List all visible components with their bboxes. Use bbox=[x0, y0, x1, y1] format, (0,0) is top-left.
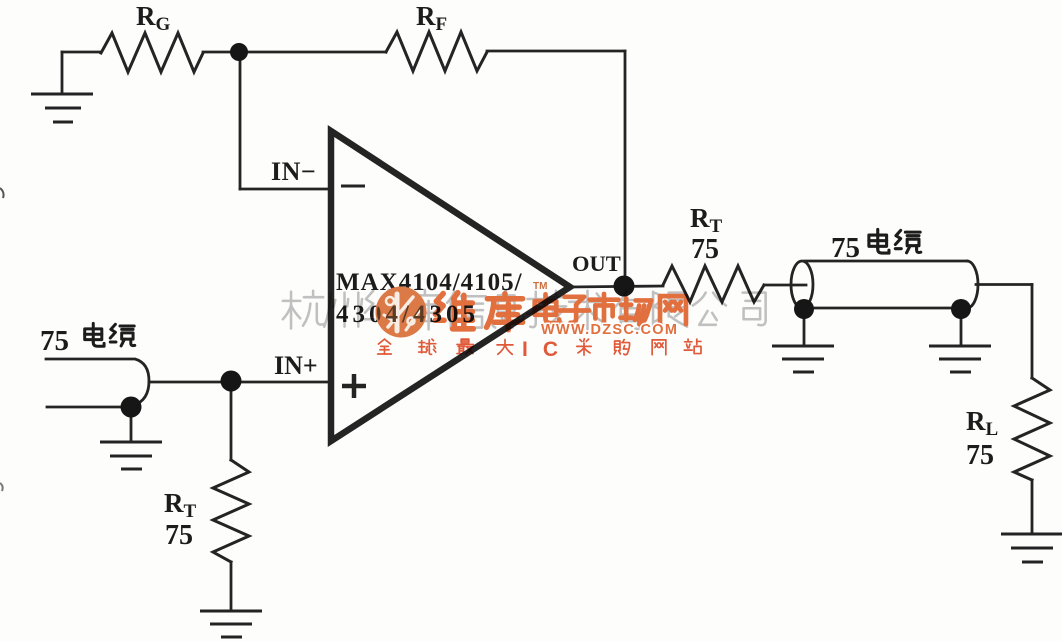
svg-text:75: 75 bbox=[691, 234, 719, 265]
svg-text:MAX4104/4105/: MAX4104/4105/ bbox=[336, 269, 523, 296]
output node junction dot bbox=[614, 276, 635, 297]
watermark orange char zi bbox=[560, 297, 590, 323]
watermark gray char zhou bbox=[324, 293, 362, 327]
watermark gray char you bbox=[609, 291, 648, 329]
watermark slogan char wang bbox=[652, 340, 666, 355]
label cable char dian (input 75 cable) bbox=[85, 323, 104, 346]
wire cable left shield stem bbox=[803, 310, 806, 346]
watermark slogan char gou bbox=[614, 340, 629, 355]
watermark logo circle bbox=[336, 287, 479, 338]
scan mark left edge lower bbox=[0, 483, 3, 491]
IN+ node junction dot bbox=[221, 371, 242, 392]
svg-text:IC: IC bbox=[522, 338, 573, 361]
wire input shield stem bbox=[130, 407, 133, 442]
svg-text:WWW.DZSC.COM: WWW.DZSC.COM bbox=[541, 322, 678, 338]
resistor RG bbox=[101, 33, 203, 72]
svg-text:RT: RT bbox=[164, 488, 197, 522]
op-amp U1 MAX4104 triangle bbox=[331, 131, 570, 441]
wire RT to cable bbox=[764, 284, 806, 287]
svg-text:IN+: IN+ bbox=[274, 351, 318, 380]
svg-text:OUT: OUT bbox=[572, 251, 621, 276]
coax cable body bottom bbox=[806, 307, 953, 310]
input cable top line with end arc bbox=[46, 359, 149, 405]
coax cable right arc bbox=[967, 261, 978, 308]
wire RF to feedback corner bbox=[487, 50, 625, 53]
wire top-left vertical to ground bbox=[61, 52, 64, 94]
resistor RF bbox=[386, 32, 487, 71]
svg-text:RF: RF bbox=[416, 1, 447, 35]
ground G2 cable left shield bbox=[772, 346, 834, 372]
watermark gray char si bbox=[743, 293, 766, 326]
ground G4 input shield bbox=[100, 442, 162, 469]
wire input to IN+ bbox=[149, 381, 330, 384]
watermark gray char ku bbox=[405, 290, 445, 330]
svg-text:IN−: IN− bbox=[271, 157, 316, 186]
label cable char dian (output 75 cable) bbox=[869, 229, 889, 253]
wire cable right shield stem bbox=[960, 310, 963, 346]
watermark multiply layer bbox=[283, 281, 766, 361]
watermark gray char wei bbox=[365, 290, 405, 329]
watermark slogan char da bbox=[497, 340, 513, 355]
wire RG to RF top rail bbox=[203, 51, 386, 54]
input cable bottom line bbox=[47, 406, 131, 409]
wire cable to RL corner bbox=[976, 283, 1032, 286]
watermark gray char hang bbox=[283, 291, 324, 329]
watermark orange char dian bbox=[535, 294, 559, 323]
cable left shield dot bbox=[794, 299, 814, 319]
wire feedback vertical bbox=[624, 51, 627, 286]
watermark slogan char qiu bbox=[419, 339, 436, 354]
watermark gray char ji bbox=[527, 291, 567, 327]
scan mark left edge upper bbox=[0, 188, 4, 198]
wire op-amp output bbox=[570, 286, 663, 287]
node A junction dot bbox=[230, 43, 248, 61]
resistor RT output series bbox=[663, 266, 764, 302]
watermark slogan char cai bbox=[577, 339, 591, 355]
wire RL to ground bbox=[1031, 480, 1034, 534]
wire RT to bottom ground bbox=[230, 562, 233, 610]
wire IN+ node down to RT bbox=[230, 381, 233, 460]
label cable char lan (output 75 cable) bbox=[895, 230, 920, 252]
coax cable left ellipse bbox=[791, 261, 813, 308]
watermark slogan char quan bbox=[378, 339, 392, 354]
svg-text:75: 75 bbox=[40, 325, 69, 357]
wire into IN- bbox=[240, 188, 330, 191]
watermark orange char shi bbox=[590, 294, 619, 324]
svg-text:75: 75 bbox=[966, 440, 994, 471]
svg-text:75: 75 bbox=[831, 232, 860, 264]
watermark slogan char zui bbox=[457, 339, 473, 354]
watermark orange char wang bbox=[660, 296, 686, 324]
watermark orange char chang bbox=[620, 298, 651, 324]
input cable shield dot bbox=[121, 397, 142, 418]
watermark slogan char zhan bbox=[684, 339, 701, 353]
watermark orange char wei bbox=[435, 293, 473, 329]
ground G3 cable right shield bbox=[929, 346, 991, 372]
cable right shield dot bbox=[951, 299, 971, 319]
watermark gray char xi bbox=[492, 290, 524, 328]
watermark gray char gong bbox=[693, 293, 726, 325]
op-amp inverting input minus symbol bbox=[341, 185, 365, 188]
ground G6 bottom RT bbox=[200, 611, 262, 637]
svg-text:75: 75 bbox=[165, 520, 193, 551]
watermark gray char xian bbox=[653, 292, 687, 329]
digits showing through logo bbox=[336, 301, 479, 328]
svg-text:RG: RG bbox=[136, 1, 171, 35]
watermark gray char xin bbox=[447, 292, 486, 329]
watermark gray char shu bbox=[569, 291, 606, 330]
watermark orange char ku bbox=[487, 294, 523, 330]
wire top-left horizontal bbox=[62, 51, 101, 54]
coax cable body top bbox=[805, 260, 967, 263]
label cable char lan (input 75 cable) bbox=[110, 324, 135, 346]
wire node A down to IN- bbox=[239, 52, 242, 189]
svg-text:RT: RT bbox=[690, 203, 723, 237]
svg-text:RL: RL bbox=[966, 406, 998, 440]
resistor RT input termination bbox=[213, 460, 249, 562]
svg-text:TM: TM bbox=[533, 281, 547, 292]
wire down to RL bbox=[1031, 285, 1034, 379]
ground G5 bottom RL bbox=[1001, 534, 1062, 562]
ground G1 top-left bbox=[31, 94, 93, 122]
op-amp non-inverting input plus symbol bbox=[342, 374, 366, 398]
resistor RL bbox=[1014, 378, 1050, 480]
